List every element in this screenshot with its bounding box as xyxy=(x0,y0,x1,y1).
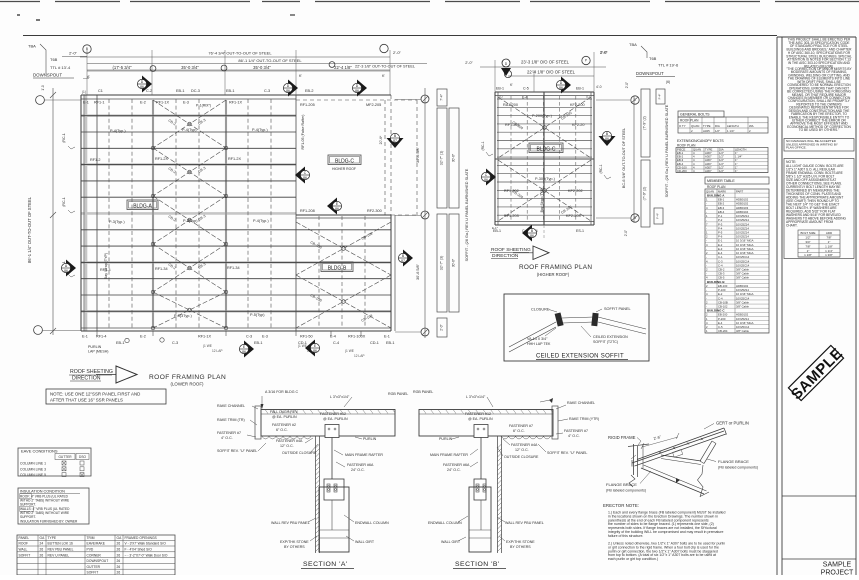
svg-text:RF1-205: RF1-205 xyxy=(300,103,315,107)
svg-text:EXP/THK STONE: EXP/THK STONE xyxy=(506,540,535,544)
svg-text:DSO: DSO xyxy=(79,455,86,459)
svg-text:SECTION 'A': SECTION 'A' xyxy=(303,561,348,568)
svg-text:86'-1 1/4" OUT-TO-OUT OF STEEL: 86'-1 1/4" OUT-TO-OUT OF STEEL xyxy=(238,58,302,63)
svg-text:ENDWALL COLUMN: ENDWALL COLUMN xyxy=(428,521,462,525)
svg-text:FASTENER #12: FASTENER #12 xyxy=(465,412,491,416)
svg-text:SOFFIT REV. "U" PANEL: SOFFIT REV. "U" PANEL xyxy=(217,449,257,453)
svg-text:DOWNSPOUT: DOWNSPOUT xyxy=(87,559,109,563)
svg-text:(RC-1: (RC-1 xyxy=(481,141,485,150)
svg-text:RIGID FRAME: RIGID FRAME xyxy=(608,435,636,440)
svg-text:1/2": 1/2" xyxy=(805,236,810,240)
svg-text:23'-3 1/8" O/O OF STEEL: 23'-3 1/8" O/O OF STEEL xyxy=(521,60,570,65)
svg-text:P-3(Typ.): P-3(Typ.) xyxy=(109,220,125,224)
svg-text:86: 86 xyxy=(530,234,534,238)
svg-text:E-1: E-1 xyxy=(82,335,88,339)
svg-text:KF2-202: KF2-202 xyxy=(568,189,583,193)
svg-text:1 1/4": 1 1/4" xyxy=(825,249,833,253)
svg-text:(RC-1: (RC-1 xyxy=(62,197,66,207)
svg-text:each purlin or girt top condit: each purlin or girt top condition.) xyxy=(608,557,658,561)
svg-text:REV PBU PANEL: REV PBU PANEL xyxy=(48,548,74,552)
svg-text:RF1-100X: RF1-100X xyxy=(348,335,366,339)
svg-text:86: 86 xyxy=(286,89,290,93)
svg-text:PROJECT: PROJECT xyxy=(821,570,854,576)
svg-text:6" O.C.: 6" O.C. xyxy=(513,429,525,433)
svg-text:RF1-34: RF1-34 xyxy=(227,266,240,270)
svg-text:2'-0": 2'-0" xyxy=(440,324,444,330)
svg-text:BY OTHERS: BY OTHERS xyxy=(510,545,531,549)
svg-text:RF1-05 (False Rafter): RF1-05 (False Rafter) xyxy=(301,115,305,150)
svg-text:WALL REV PBU PANEL: WALL REV PBU PANEL xyxy=(271,521,310,525)
svg-text:SUPPORT.: SUPPORT. xyxy=(20,503,36,507)
svg-text:E-4: E-4 xyxy=(330,335,336,339)
svg-text:BOLT SIZE: BOLT SIZE xyxy=(800,231,815,235)
svg-text:GENERAL BOLTS: GENERAL BOLTS xyxy=(680,113,710,117)
svg-text:(HIGHER ROOF): (HIGHER ROOF) xyxy=(537,272,570,277)
svg-text:2'-0": 2'-0" xyxy=(393,50,402,55)
svg-text:DIA: DIA xyxy=(715,124,720,128)
svg-text:(RC-1: (RC-1 xyxy=(62,133,66,143)
svg-text:COLUMN LINE 3: COLUMN LINE 3 xyxy=(20,467,46,471)
svg-text:CEILED EXTENSION: CEILED EXTENSION xyxy=(593,335,628,339)
svg-text:GERT or PURLIN: GERT or PURLIN xyxy=(716,421,749,426)
svg-text:FASTENER #12: FASTENER #12 xyxy=(320,412,346,416)
svg-text:TO BE USED BY OTHERS.": TO BE USED BY OTHERS." xyxy=(799,128,840,132)
svg-text:(1): (1) xyxy=(82,90,86,94)
svg-text:SECTION 'B': SECTION 'B' xyxy=(455,561,500,568)
svg-text:TYPE: TYPE xyxy=(703,124,711,128)
svg-text:86: 86 xyxy=(313,349,317,353)
svg-text:ROOF FRAMING PLAN: ROOF FRAMING PLAN xyxy=(519,264,592,271)
svg-text:RF1-2X: RF1-2X xyxy=(228,157,242,161)
svg-text:PLAN OFFICE.: PLAN OFFICE. xyxy=(786,146,807,150)
svg-text:RF1-1X: RF1-1X xyxy=(198,335,212,339)
svg-text:EB-1: EB-1 xyxy=(386,341,394,345)
svg-text:86: 86 xyxy=(303,176,307,180)
svg-text:22'-4 1/8" O/O OF STEEL: 22'-4 1/8" O/O OF STEEL xyxy=(527,70,576,75)
svg-text:ADD: ADD xyxy=(826,231,833,235)
svg-text:BY OTHERS: BY OTHERS xyxy=(284,545,305,549)
svg-text:RF1-1X: RF1-1X xyxy=(229,101,243,105)
svg-text:3/8" Cable: 3/8" Cable xyxy=(736,329,749,333)
svg-text:2'-0": 2'-0" xyxy=(625,82,629,88)
svg-text:C1: C1 xyxy=(98,89,103,93)
svg-text:CEILED EXTENSION SOFFIT: CEILED EXTENSION SOFFIT xyxy=(536,354,624,360)
svg-text:P: P xyxy=(585,59,587,63)
svg-text:V - 3'X7' Walk Standard S/O: V - 3'X7' Walk Standard S/O xyxy=(125,542,167,546)
svg-text:CORNER: CORNER xyxy=(87,553,102,557)
svg-text:86: 86 xyxy=(335,207,339,211)
svg-text:ROOF PLAN: ROOF PLAN xyxy=(680,119,699,123)
svg-text:SOFFIT - (26 Ga.) REV U PANEL: SOFFIT - (26 Ga.) REV U PANEL BURNISHED … xyxy=(465,168,469,261)
svg-text:C-2: C-2 xyxy=(146,89,152,93)
svg-text:RF1-2: RF1-2 xyxy=(90,158,101,162)
svg-text:86: 86 xyxy=(355,89,359,93)
svg-text:P-5(Typ): P-5(Typ) xyxy=(250,313,265,317)
svg-text:LAP (MESH): LAP (MESH) xyxy=(88,350,109,354)
svg-text:OUTSIDE CLOSURE: OUTSIDE CLOSURE xyxy=(282,451,317,455)
svg-text:TBA: TBA xyxy=(28,44,36,49)
svg-text:SUPPORT.: SUPPORT. xyxy=(20,515,36,519)
svg-text:GUTTER: GUTTER xyxy=(58,455,72,459)
svg-text:1": 1" xyxy=(807,249,810,253)
svg-text:12 LAP: 12 LAP xyxy=(354,354,364,358)
svg-text:B: B xyxy=(86,47,88,51)
svg-text:2'-0": 2'-0" xyxy=(69,51,78,56)
svg-text:RF1-203: RF1-203 xyxy=(504,214,519,218)
svg-text:(RC-1: (RC-1 xyxy=(599,164,603,173)
svg-text:86: 86 xyxy=(242,350,246,354)
svg-text:GA: GA xyxy=(40,536,46,540)
svg-text:2'-0": 2'-0" xyxy=(465,61,473,65)
svg-text:T6B: T6B xyxy=(50,57,58,62)
svg-text:F-4*: F-4* xyxy=(658,93,662,100)
svg-text:E-2: E-2 xyxy=(140,101,146,105)
svg-text:ROOF PLAN: ROOF PLAN xyxy=(707,185,726,189)
svg-text:3/8" Cable: 3/8" Cable xyxy=(736,304,749,308)
svg-text:22'-4 1/8": 22'-4 1/8" xyxy=(334,65,352,70)
svg-text:RF1-34: RF1-34 xyxy=(155,267,168,271)
svg-text:EB-1: EB-1 xyxy=(176,89,184,93)
svg-text:BUTTEN LOK 16: BUTTEN LOK 16 xyxy=(48,542,73,546)
svg-text:1 1/8": 1 1/8" xyxy=(804,253,812,257)
svg-text:K': K' xyxy=(510,83,513,87)
svg-text:MF2-205: MF2-205 xyxy=(366,103,381,107)
svg-text:1 1/8": 1 1/8" xyxy=(825,244,833,248)
svg-text:TRIM: TRIM xyxy=(87,536,95,540)
svg-text:6" O.C.: 6" O.C. xyxy=(276,428,288,432)
svg-text:OUTSIDE CLOSURE: OUTSIDE CLOSURE xyxy=(504,455,539,459)
svg-text:ENDWALL COLUMN: ENDWALL COLUMN xyxy=(355,521,389,525)
svg-text:1/2": 1/2" xyxy=(715,129,720,133)
svg-text:PVD: PVD xyxy=(87,548,94,552)
svg-text:FASTENER #7: FASTENER #7 xyxy=(564,429,588,433)
svg-text:P-300(Typ.): P-300(Typ.) xyxy=(535,177,556,181)
svg-text:SAMPLE: SAMPLE xyxy=(823,562,852,569)
svg-text:DOWNSPOUT: DOWNSPOUT xyxy=(33,73,62,78)
svg-text:2'-0": 2'-0" xyxy=(624,230,628,236)
svg-text:86: 86 xyxy=(484,178,488,182)
svg-text:86: 86 xyxy=(64,269,68,273)
svg-text:MAIN FRAME RAFTER: MAIN FRAME RAFTER xyxy=(345,453,383,457)
svg-text:PART: PART xyxy=(736,189,743,193)
svg-text:24: 24 xyxy=(40,542,44,546)
svg-text:(1 WE: (1 WE xyxy=(345,349,354,353)
svg-text:C-3: C-3 xyxy=(246,335,252,339)
svg-text:76'-4 3/4" OUT-TO-OUT OF STEEL: 76'-4 3/4" OUT-TO-OUT OF STEEL xyxy=(208,51,272,56)
svg-text:C-5: C-5 xyxy=(523,87,529,91)
svg-text:Bay Strap (TYP): Bay Strap (TYP) xyxy=(104,253,108,279)
svg-text:1": 1" xyxy=(735,169,738,173)
svg-text:SOFFIT (T2TC): SOFFIT (T2TC) xyxy=(593,340,618,344)
svg-text:REV U PANEL: REV U PANEL xyxy=(48,553,70,557)
svg-text:BLDG-C: BLDG-C xyxy=(335,159,354,165)
svg-text:HHH LAP TEK: HHH LAP TEK xyxy=(527,342,551,346)
svg-text:O TY: O TY xyxy=(679,124,686,128)
svg-text:@ EA. PURLIN: @ EA. PURLIN xyxy=(468,417,493,421)
svg-text:EB-2: EB-2 xyxy=(305,89,313,93)
svg-text:RAKE TRIM (YTR): RAKE TRIM (YTR) xyxy=(569,417,599,421)
svg-text:E-3: E-3 xyxy=(183,101,189,105)
svg-text:BC-6 5/8" OUT-TO-OUT OF STEEL: BC-6 5/8" OUT-TO-OUT OF STEEL xyxy=(622,128,626,188)
svg-text:EB-1: EB-1 xyxy=(226,89,234,93)
svg-text:26: 26 xyxy=(117,559,121,563)
svg-text:QUAN: QUAN xyxy=(691,124,699,128)
svg-text:26: 26 xyxy=(40,548,44,552)
svg-text:ROOF FRAMING PLAN: ROOF FRAMING PLAN xyxy=(149,374,226,381)
svg-text:7/8": 7/8" xyxy=(805,244,810,248)
svg-text:RF1-2X: RF1-2X xyxy=(155,157,169,161)
svg-text:30'-6*: 30'-6* xyxy=(452,153,456,162)
svg-text:AFTER THAT USE 16" SSR PANELS: AFTER THAT USE 16" SSR PANELS xyxy=(50,398,123,403)
svg-text:ERECTOR NOTE:: ERECTOR NOTE: xyxy=(603,503,639,508)
svg-text:ROOF SHEETING: ROOF SHEETING xyxy=(491,247,531,253)
svg-text:A307: A307 xyxy=(705,169,712,173)
svg-text:WALL GIRT: WALL GIRT xyxy=(441,540,461,544)
svg-text:26: 26 xyxy=(117,571,121,575)
svg-text:24" O.C.: 24" O.C. xyxy=(351,468,365,472)
svg-text:WALL GIRT: WALL GIRT xyxy=(355,540,375,544)
svg-text:GUTTER: GUTTER xyxy=(87,565,101,569)
svg-text:TTL # 13'-4: TTL # 13'-4 xyxy=(50,65,71,70)
svg-text:24" O.C.: 24" O.C. xyxy=(447,468,461,472)
svg-text:12 LAP: 12 LAP xyxy=(212,349,222,353)
svg-text:E-1: E-1 xyxy=(83,101,89,105)
svg-text:INSULATION FURNISHED BY: OWNER: INSULATION FURNISHED BY: OWNER xyxy=(20,520,78,524)
svg-text:86: 86 xyxy=(140,85,144,89)
svg-text:30'-6 5/8": 30'-6 5/8" xyxy=(416,263,420,280)
svg-text:26: 26 xyxy=(117,565,121,569)
svg-text:FASTENER #6A: FASTENER #6A xyxy=(443,463,470,467)
svg-text:EXP/THK STONE: EXP/THK STONE xyxy=(280,540,309,544)
svg-text:(FB labeled components): (FB labeled components) xyxy=(718,466,758,470)
svg-text:C-4: C-4 xyxy=(333,341,339,345)
svg-text:KF2-200: KF2-200 xyxy=(570,103,585,107)
svg-text:12" O.C.: 12" O.C. xyxy=(280,444,294,448)
svg-text:FRAMED OPENINGS: FRAMED OPENINGS xyxy=(125,536,158,540)
svg-text:RAKE CHANNEL: RAKE CHANNEL xyxy=(217,404,245,408)
svg-text:FASTENER #2: FASTENER #2 xyxy=(272,423,296,427)
svg-text:MEMBER TABLE: MEMBER TABLE xyxy=(707,179,735,183)
svg-text:(1): (1) xyxy=(586,95,590,99)
svg-text:C-3: C-3 xyxy=(264,89,270,93)
svg-text:K': K' xyxy=(382,74,385,78)
svg-text:1 1/4": 1 1/4" xyxy=(727,129,734,133)
svg-text:35'-0 3/4": 35'-0 3/4" xyxy=(253,65,271,70)
svg-text:20'-6*: 20'-6* xyxy=(379,135,383,144)
svg-text:3/4": 3/4" xyxy=(805,240,810,244)
svg-text:26: 26 xyxy=(117,548,121,552)
svg-text:22'-3 1/8" OUT-TO-OUT OF STEEL: 22'-3 1/8" OUT-TO-OUT OF STEEL xyxy=(355,65,415,69)
svg-text:L 3"x3"x1/4": L 3"x3"x1/4" xyxy=(466,395,486,399)
svg-text:@ EA. PURLIN: @ EA. PURLIN xyxy=(323,417,348,421)
svg-text:DC-3: DC-3 xyxy=(191,89,200,93)
svg-text:BLDG-B: BLDG-B xyxy=(328,266,347,272)
svg-text:30'-6 5/8": 30'-6 5/8" xyxy=(416,146,420,163)
svg-text:COLUMN LINE 5: COLUMN LINE 5 xyxy=(20,473,46,477)
svg-text:P-4(Typ): P-4(Typ) xyxy=(182,128,197,132)
svg-text:1": 1" xyxy=(828,240,831,244)
svg-text:E-1*: E-1* xyxy=(492,226,499,230)
svg-text:RGB PANEL: RGB PANEL xyxy=(388,392,408,396)
svg-text:~ - 3'-2"X7'-0" Walk Door S/O: ~ - 3'-2"X7'-0" Walk Door S/O xyxy=(125,553,168,557)
svg-text:WALL REV PBU PANEL: WALL REV PBU PANEL xyxy=(505,521,544,525)
svg-text:FASTENER #7: FASTENER #7 xyxy=(509,424,533,428)
svg-text:CB-204: CB-204 xyxy=(718,329,728,333)
svg-text:26: 26 xyxy=(117,553,121,557)
svg-text:K': K' xyxy=(299,74,302,78)
svg-text:RAKE TRIM (TR): RAKE TRIM (TR) xyxy=(217,418,245,422)
svg-text:12" O.C.: 12" O.C. xyxy=(515,448,529,452)
svg-text:PURLIN: PURLIN xyxy=(439,437,453,441)
svg-text:FLANGE BRACE: FLANGE BRACE xyxy=(718,459,749,464)
svg-text:FALL LNGH REV: FALL LNGH REV xyxy=(270,410,298,414)
svg-text:E-1: E-1 xyxy=(384,335,390,339)
svg-text:RF1-50: RF1-50 xyxy=(300,335,313,339)
svg-text:@ EA. PURLIN: @ EA. PURLIN xyxy=(272,415,297,419)
svg-text:P-5(3Typ.): P-5(3Typ.) xyxy=(174,314,192,318)
svg-text:RAKE CHANNEL: RAKE CHANNEL xyxy=(567,401,595,405)
svg-text:(1 WE: (1 WE xyxy=(298,344,307,348)
svg-text:GA: GA xyxy=(117,536,123,540)
svg-text:PURLIN: PURLIN xyxy=(363,437,377,441)
svg-text:1'-0: 1'-0 xyxy=(41,85,45,90)
svg-text:F - 4'X4' Shed S/O: F - 4'X4' Shed S/O xyxy=(125,548,153,552)
svg-text:WA: WA xyxy=(749,124,754,128)
svg-text:RGB PANEL: RGB PANEL xyxy=(413,390,433,394)
svg-text:PANEL: PANEL xyxy=(19,536,30,540)
svg-text:KF2-20: KF2-20 xyxy=(572,123,584,127)
svg-text:INSULATION CONDITION: INSULATION CONDITION xyxy=(20,490,65,494)
svg-text:7/8": 7/8" xyxy=(826,236,831,240)
svg-text:ES-1: ES-1 xyxy=(576,229,584,233)
svg-text:RF1-1X: RF1-1X xyxy=(156,101,170,105)
svg-text:(LOWER ROOF): (LOWER ROOF) xyxy=(171,382,204,387)
svg-text:86'-1 1/4" OUT-TO-OUT OF STEEL: 86'-1 1/4" OUT-TO-OUT OF STEEL xyxy=(27,196,32,263)
svg-text:RF2-300: RF2-300 xyxy=(367,209,382,213)
svg-text:CD-200: CD-200 xyxy=(677,169,687,173)
svg-text:P-200(Typ.): P-200(Typ.) xyxy=(532,114,553,118)
svg-text:RF1-202: RF1-202 xyxy=(504,189,519,193)
svg-text:CLOSURE: CLOSURE xyxy=(531,308,550,312)
svg-text:EAVE CONDITIONS: EAVE CONDITIONS xyxy=(21,449,58,454)
svg-text:COLUMN LINE 1: COLUMN LINE 1 xyxy=(20,462,46,466)
svg-text:86: 86 xyxy=(605,137,609,141)
svg-text:SOFFIT PANEL: SOFFIT PANEL xyxy=(604,307,631,311)
svg-text:EB-1: EB-1 xyxy=(496,87,504,91)
svg-text:RF1-208: RF1-208 xyxy=(300,209,315,213)
svg-text:FASTENER #6A: FASTENER #6A xyxy=(347,463,374,467)
svg-text:SOFFIT - (26 Ga.) REV U PANEL: SOFFIT - (26 Ga.) REV U PANEL BURNISHED … xyxy=(665,104,669,197)
svg-text:DIRECTION: DIRECTION xyxy=(72,376,101,382)
svg-text:TYPE: TYPE xyxy=(48,536,57,540)
svg-text:(1): (1) xyxy=(499,95,503,99)
svg-text:87: 87 xyxy=(401,259,405,263)
svg-text:E-3: E-3 xyxy=(262,335,268,339)
svg-text:failure of this structure.: failure of this structure. xyxy=(608,534,643,538)
svg-text:VA-14 X 3/4": VA-14 X 3/4" xyxy=(527,337,548,341)
svg-text:ROOF: ROOF xyxy=(19,542,29,546)
svg-text:26: 26 xyxy=(117,542,121,546)
svg-text:87: 87 xyxy=(393,139,397,143)
svg-text:FLANGE BRACE: FLANGE BRACE xyxy=(606,482,637,487)
svg-text:P-4(Typ.): P-4(Typ.) xyxy=(252,128,268,132)
svg-text:F-4*: F-4* xyxy=(656,212,660,219)
svg-text:HIGHER ROOF: HIGHER ROOF xyxy=(332,167,356,171)
svg-text:RF1-4: RF1-4 xyxy=(96,335,107,339)
svg-text:FASTENER #7: FASTENER #7 xyxy=(217,431,241,435)
svg-text:(1 WE: (1 WE xyxy=(203,344,212,348)
svg-text:(17'-5 3/4": (17'-5 3/4" xyxy=(112,65,132,70)
svg-text:BLDG-A: BLDG-A xyxy=(133,204,152,210)
svg-text:E-4: E-4 xyxy=(522,96,527,100)
svg-text:26: 26 xyxy=(40,553,44,557)
svg-text:EB-1: EB-1 xyxy=(254,341,262,345)
svg-text:(FB labeled components): (FB labeled components) xyxy=(606,489,646,493)
svg-text:35'-0 3/4": 35'-0 3/4" xyxy=(181,65,199,70)
svg-text:A 3/16 FOR BLDG C: A 3/16 FOR BLDG C xyxy=(265,390,299,394)
svg-text:EXTENSION/CANOPY BOLTS: EXTENSION/CANOPY BOLTS xyxy=(677,139,724,143)
svg-text:3/8" Cable: 3/8" Cable xyxy=(736,276,749,280)
svg-text:(7'-9" (2): (7'-9" (2) xyxy=(643,116,647,130)
svg-text:4" O.C.: 4" O.C. xyxy=(221,436,233,440)
svg-text:A325: A325 xyxy=(703,129,710,133)
svg-text:RA1-200: RA1-200 xyxy=(503,103,518,107)
svg-text:FASTENER #4A: FASTENER #4A xyxy=(276,439,303,443)
svg-text:P-4(Typ.): P-4(Typ.) xyxy=(253,219,269,223)
svg-text:(7'-9" (2): (7'-9" (2) xyxy=(643,187,647,201)
svg-text:32'-7" (1): 32'-7" (1) xyxy=(440,151,444,166)
svg-text:Bay Strap (TYP): Bay Strap (TYP) xyxy=(540,188,544,213)
svg-text:1/2": 1/2" xyxy=(719,169,724,173)
svg-text:32'-7" (3): 32'-7" (3) xyxy=(440,256,444,271)
svg-text:TTL # 19'-6: TTL # 19'-6 xyxy=(658,63,679,68)
svg-text:C-3: C-3 xyxy=(172,341,178,345)
svg-text:KF2-203: KF2-203 xyxy=(566,214,581,218)
svg-text:DIRECTION: DIRECTION xyxy=(492,253,519,259)
svg-text:WALL: WALL xyxy=(19,548,28,552)
svg-text:BLDG-C: BLDG-C xyxy=(537,147,556,153)
svg-text:DOWNSPOUT: DOWNSPOUT xyxy=(636,71,664,76)
svg-text:EAVE/RAKE: EAVE/RAKE xyxy=(87,542,106,546)
svg-text:RF1-201: RF1-201 xyxy=(505,123,520,127)
svg-text:CD-1: CD-1 xyxy=(370,341,379,345)
svg-text:L 3"x3"x1/4": L 3"x3"x1/4" xyxy=(330,395,350,399)
svg-text:2'-0": 2'-0" xyxy=(600,51,608,55)
svg-text:E-2: E-2 xyxy=(140,335,146,339)
svg-text:SOFFIT: SOFFIT xyxy=(19,553,31,557)
svg-text:86: 86 xyxy=(559,86,563,90)
svg-text:NOTE: USE ONE 12"SSR PANEL FIR: NOTE: USE ONE 12"SSR PANEL FIRST AND xyxy=(50,392,140,397)
svg-text:P-3(Typ): P-3(Typ) xyxy=(183,219,198,223)
svg-text:LENGTH: LENGTH xyxy=(727,124,739,128)
svg-text:P-1(Rbt*): P-1(Rbt*) xyxy=(196,104,211,108)
svg-text:TBA: TBA xyxy=(629,42,637,47)
svg-text:7'-4*: 7'-4* xyxy=(440,94,444,101)
svg-text:1 3/8": 1 3/8" xyxy=(825,253,833,257)
svg-text:4'-0: 4'-0 xyxy=(596,85,602,89)
svg-text:SOFFIT: SOFFIT xyxy=(87,571,99,575)
svg-text:MAIN FRAME RAFTER: MAIN FRAME RAFTER xyxy=(430,453,468,457)
svg-text:RF1-1: RF1-1 xyxy=(94,101,105,105)
svg-text:4" O.C.: 4" O.C. xyxy=(568,434,580,438)
svg-text:CHART.: CHART. xyxy=(786,224,798,228)
svg-text:PURLIN: PURLIN xyxy=(88,345,102,349)
svg-text:T6B: T6B xyxy=(649,56,657,61)
svg-text:P-4(Typ.): P-4(Typ.) xyxy=(110,129,126,133)
svg-text:30'-6*: 30'-6* xyxy=(452,258,456,267)
svg-text:FASTENER #4A: FASTENER #4A xyxy=(511,443,538,447)
svg-text:EB-1: EB-1 xyxy=(576,87,584,91)
